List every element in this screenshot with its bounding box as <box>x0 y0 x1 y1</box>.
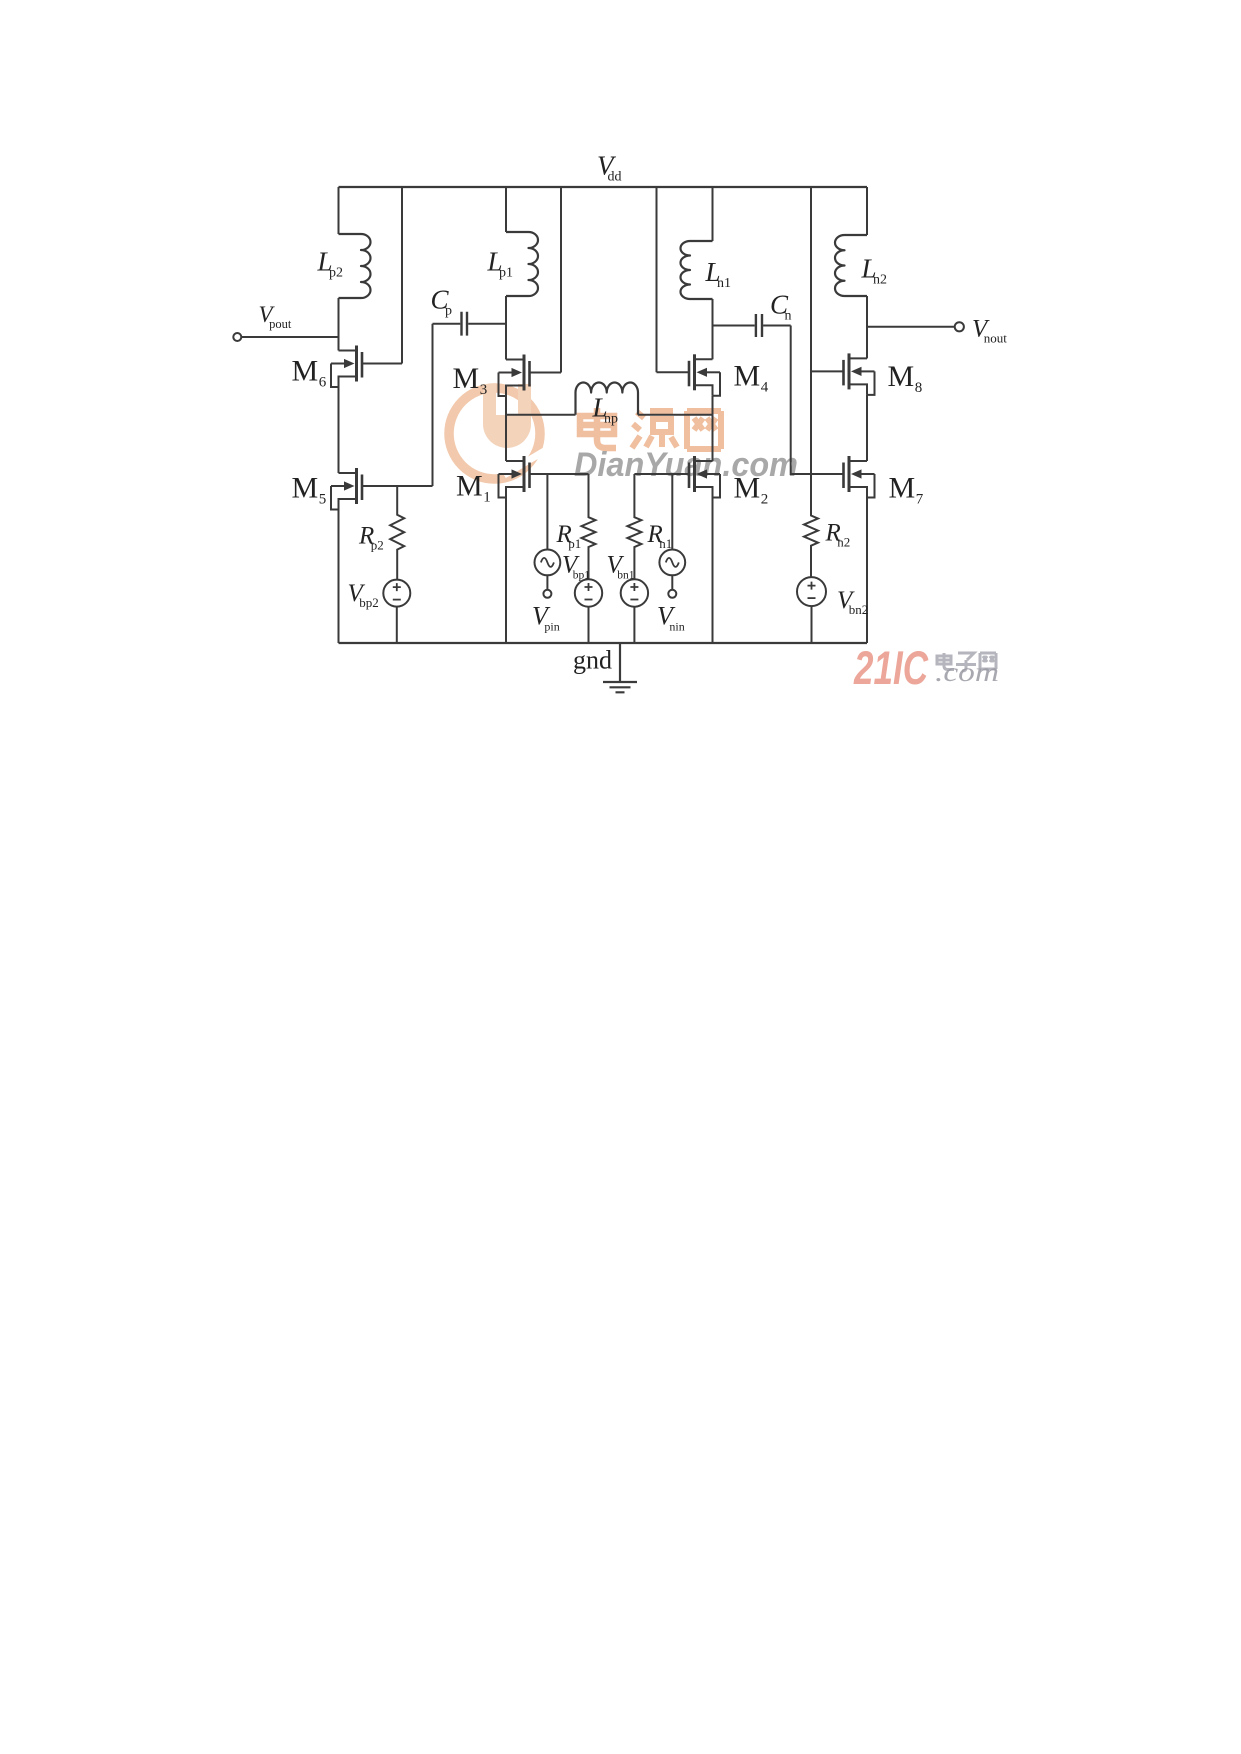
voltage source Vbn2 <box>797 577 826 606</box>
wire Vnin riser <box>671 474 673 550</box>
wire M3 source row to Lnp <box>506 414 576 416</box>
wire Vdd to Ln1 <box>712 187 714 241</box>
transistor M2 <box>634 456 720 498</box>
transistor M7 <box>811 456 875 498</box>
svg-text:DianYuan.com: DianYuan.com <box>574 446 798 484</box>
terminal Vnout <box>955 322 964 331</box>
wire Vpout lead <box>241 336 338 338</box>
wire M6 source to M5 drain <box>338 387 340 473</box>
wire Vbp2 to ground rail <box>396 607 398 643</box>
resistor Rp1 <box>582 474 596 579</box>
wire Vnin source to terminal <box>671 575 673 590</box>
ac source Vnin source <box>659 550 685 576</box>
wire Cn to M7 gate <box>791 326 811 475</box>
wire M6 gate to Vdd <box>401 187 403 364</box>
wire Vpin riser <box>546 474 548 550</box>
wire M1 source to ground rail <box>505 498 507 644</box>
Vdd rail <box>339 186 868 188</box>
transistor M6 <box>331 346 402 388</box>
wire M8 source to M7 drain <box>866 395 868 461</box>
wire Ln1 to M4 drain <box>712 299 714 359</box>
terminal Vnin <box>668 590 676 598</box>
resistor Rp2 <box>390 486 404 580</box>
wire M4 gate to Vdd <box>656 187 658 372</box>
wire Lp1 to M3 drain <box>505 296 507 360</box>
resistor Rn1 <box>627 474 641 579</box>
wire Vbn1 to ground rail <box>633 607 635 643</box>
watermark char yuan <box>632 411 677 448</box>
svg-text:.com: .com <box>935 657 999 687</box>
ground rail <box>339 642 868 644</box>
capacitor Cn <box>713 314 791 337</box>
wire Vbp1 to ground rail <box>588 607 590 643</box>
svg-text:21IC: 21IC <box>853 641 929 694</box>
svg-text:gnd: gnd <box>573 646 612 675</box>
wire Cp to M5 gate <box>432 324 434 486</box>
resistor Rn2 <box>804 474 818 577</box>
terminal Vpin <box>543 590 551 598</box>
wire Ln2 to M8 drain <box>866 296 868 358</box>
watermark dianyuan logo <box>449 384 546 479</box>
inductor Ln2 <box>835 235 867 296</box>
inductor Lnp <box>575 383 638 415</box>
watermark 21ic chars dianziwang <box>937 653 996 671</box>
wire M8 M7 gate bias column <box>810 187 812 474</box>
wire Vnout lead <box>867 326 955 328</box>
wire Vpin source to terminal <box>546 575 548 590</box>
wire Lp2 to M6 drain <box>338 298 340 351</box>
wire M2 source to ground rail <box>712 498 714 644</box>
voltage source Vbp1 <box>575 579 602 606</box>
transistor M5 <box>331 468 433 510</box>
transistor M3 <box>499 355 562 397</box>
inductor Lp2 <box>339 234 371 298</box>
wire Vbn2 to ground rail <box>811 606 813 643</box>
terminal Vpout <box>233 333 241 341</box>
inductor Ln1 <box>681 241 713 299</box>
wire M3 gate to Vdd <box>560 187 562 373</box>
capacitor Cp <box>433 312 507 336</box>
voltage source Vbp2 <box>383 580 410 607</box>
voltage source Vbn1 <box>621 579 648 606</box>
watermark char dian <box>580 408 616 448</box>
ac source Vpin source <box>535 550 561 576</box>
wire Vdd to Lp1 <box>505 187 507 232</box>
watermark char wang <box>687 411 721 449</box>
inductor Lp1 <box>506 232 538 296</box>
transistor M1 <box>499 456 589 498</box>
wire Vdd to Lp2 <box>338 187 340 234</box>
wire M5 source to ground rail <box>338 510 340 644</box>
transistor M4 <box>657 354 721 396</box>
wire M7 source to ground rail <box>866 498 868 644</box>
wire Vdd to Ln2 <box>866 187 868 235</box>
ground symbol <box>603 643 637 692</box>
transistor M8 <box>811 353 875 395</box>
wire M3 source to M1 drain <box>505 396 507 461</box>
wire M4 source to M2 drain <box>712 396 714 461</box>
wire Lnp to M4 source row <box>638 414 713 416</box>
